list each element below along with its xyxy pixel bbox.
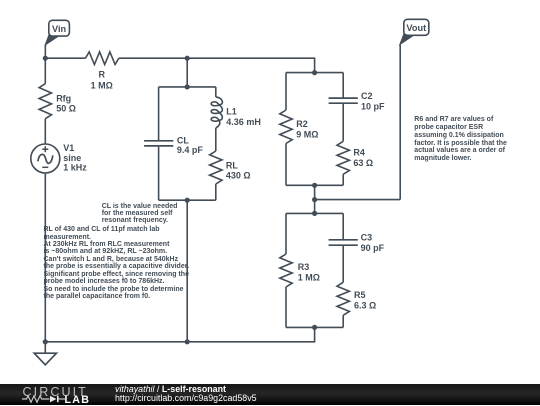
wire C3 branch upper bbox=[342, 213, 344, 239]
wire R3 branch lower bbox=[285, 287, 287, 327]
wire Rfg to V1 bbox=[44, 119, 46, 144]
resistor Rfg bbox=[39, 84, 76, 119]
svg-text:R4: R4 bbox=[353, 148, 365, 158]
capacitor C3 bbox=[329, 233, 385, 254]
junction bottom rail / CL feed bbox=[185, 339, 190, 344]
wire group2 top bbox=[286, 212, 343, 214]
junction top wire / CL feed bbox=[185, 56, 190, 61]
svg-text:9.4 pF: 9.4 pF bbox=[177, 145, 204, 155]
wire Vout vertical bbox=[399, 45, 401, 200]
svg-text:L1: L1 bbox=[226, 106, 237, 116]
wire L1-RL middle bbox=[215, 128, 217, 151]
junction group2 top bbox=[312, 211, 317, 216]
svg-text:R: R bbox=[98, 70, 105, 80]
svg-text:C3: C3 bbox=[361, 233, 373, 243]
voltage source V1 bbox=[31, 143, 88, 173]
svg-text:50 Ω: 50 Ω bbox=[56, 103, 76, 113]
note: CL value explanation bbox=[102, 203, 178, 225]
svg-text:4.36 mH: 4.36 mH bbox=[226, 117, 261, 127]
CircuitLab logo wordmark bbox=[23, 386, 88, 398]
wire R2 branch upper bbox=[285, 73, 287, 110]
wire group2 bottom bbox=[286, 326, 343, 328]
svg-text:430 Ω: 430 Ω bbox=[226, 171, 251, 181]
node Vout flag bbox=[400, 19, 429, 45]
note: RL and CL measurement paragraph bbox=[44, 226, 190, 301]
resistor R4 bbox=[337, 141, 373, 174]
resistor R2 bbox=[280, 110, 319, 144]
junction Vout node bbox=[312, 197, 317, 202]
node Vin flag bbox=[45, 20, 69, 45]
ground bbox=[34, 353, 56, 365]
svg-text:C2: C2 bbox=[361, 91, 373, 101]
svg-text:1 MΩ: 1 MΩ bbox=[298, 273, 320, 283]
svg-text:Vin: Vin bbox=[52, 24, 67, 34]
wire L1 branch upper bbox=[215, 87, 217, 97]
wire feed to CL group top bbox=[186, 58, 188, 87]
wire top right (R to probe branch corner) bbox=[119, 58, 315, 72]
svg-text:R5: R5 bbox=[354, 290, 366, 300]
svg-text:R3: R3 bbox=[298, 262, 310, 272]
wire V1 to bottom rail bbox=[44, 173, 46, 342]
svg-text:sine: sine bbox=[63, 153, 81, 163]
CircuitLab logo resistor-diode squiggle bbox=[22, 394, 68, 404]
capacitor CL bbox=[144, 135, 203, 155]
junction ground node bbox=[43, 339, 48, 344]
wire Vout horizontal bbox=[315, 199, 401, 201]
svg-text:V1: V1 bbox=[63, 143, 74, 153]
wire R5 lower bbox=[342, 315, 344, 327]
svg-text:90 pF: 90 pF bbox=[361, 243, 385, 253]
svg-text:1 kHz: 1 kHz bbox=[63, 163, 87, 173]
wire CL branch lower bbox=[158, 147, 160, 201]
wire R3 branch upper bbox=[285, 213, 287, 254]
wire group1 top bbox=[286, 72, 343, 74]
wire C2 branch upper bbox=[342, 73, 344, 99]
svg-text:RL: RL bbox=[226, 161, 238, 171]
svg-text:Vout: Vout bbox=[406, 23, 426, 33]
wire group1 bottom bbox=[286, 184, 343, 186]
svg-text:9 MΩ: 9 MΩ bbox=[296, 129, 318, 139]
footer url text bbox=[115, 394, 257, 403]
wire CL group bottom bbox=[159, 199, 216, 201]
wire C3-R5 middle bbox=[342, 245, 344, 282]
wire ground stem bbox=[44, 342, 46, 353]
svg-text:CL: CL bbox=[177, 135, 189, 145]
junction group2 bottom bbox=[312, 325, 317, 330]
resistor R bbox=[86, 52, 119, 91]
wire CL group to bottom rail bbox=[186, 200, 188, 342]
wire C2-R4 middle bbox=[342, 103, 344, 141]
wire RL lower bbox=[215, 184, 217, 200]
wire R4 lower bbox=[342, 174, 344, 185]
wire CL group top bbox=[159, 86, 216, 88]
svg-text:6.3 Ω: 6.3 Ω bbox=[354, 301, 376, 311]
note: R6 R7 ESR paragraph bbox=[414, 116, 507, 163]
junction Vin node bbox=[43, 56, 48, 61]
junction group1 top bbox=[312, 70, 317, 75]
wire R2 branch lower bbox=[285, 144, 287, 186]
footer bar bbox=[0, 384, 540, 405]
wire top left (Vin node to R) bbox=[45, 57, 85, 59]
resistor R5 bbox=[337, 282, 376, 315]
resistor RL bbox=[210, 151, 251, 184]
wire between groups bbox=[314, 185, 316, 213]
footer title text bbox=[115, 385, 226, 394]
svg-text:R2: R2 bbox=[296, 119, 308, 129]
svg-text:Rfg: Rfg bbox=[56, 94, 71, 104]
wire CL branch upper bbox=[158, 87, 160, 140]
resistor R3 bbox=[280, 254, 320, 287]
wire left rail upper bbox=[44, 58, 46, 83]
svg-text:10 pF: 10 pF bbox=[361, 101, 385, 111]
svg-text:63 Ω: 63 Ω bbox=[353, 158, 373, 168]
junction CL group bottom bbox=[185, 198, 190, 203]
junction group1 bottom bbox=[312, 183, 317, 188]
capacitor C2 bbox=[329, 91, 385, 111]
wire bottom rail bbox=[45, 327, 314, 341]
junction CL group top bbox=[185, 84, 190, 89]
svg-text:1 MΩ: 1 MΩ bbox=[91, 81, 113, 91]
wire Vin lead bbox=[44, 45, 46, 59]
inductor L1 bbox=[211, 97, 261, 128]
